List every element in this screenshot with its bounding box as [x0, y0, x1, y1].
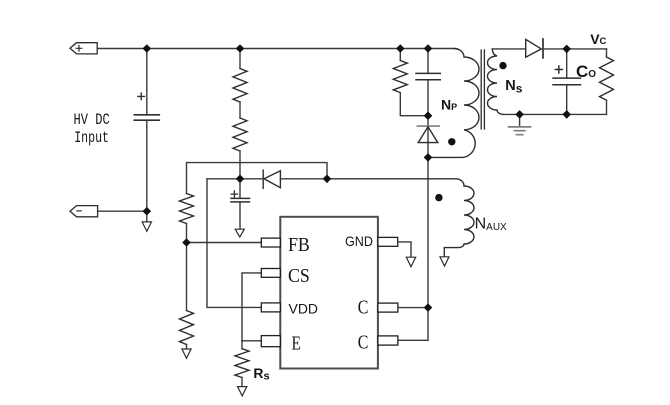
ground arrow below RS [238, 387, 247, 396]
svg-text:VC: VC [590, 31, 606, 47]
ground earth symbol (secondary) [509, 114, 531, 134]
polarity dot NP [448, 138, 455, 145]
wire between chain resistors [239, 102, 241, 118]
polarity dot NAUX [435, 194, 442, 201]
svg-text:E: E [292, 332, 301, 354]
ground arrow below vdd cap [235, 229, 244, 237]
svg-text:VDD: VDD [289, 300, 319, 316]
terminal + (HV DC input positive) [70, 43, 97, 54]
wire FB sense loop (left resistor top, horizontal y162, down to diode anode node) [187, 163, 328, 194]
wire VDD node left segment [207, 178, 240, 180]
wire E pin wire [242, 340, 261, 342]
node co-bottom [562, 110, 571, 119]
capacitor CO output [553, 49, 581, 115]
node FB [182, 238, 191, 247]
resistor FB lower divider [180, 311, 194, 345]
svg-text:CS: CS [288, 265, 310, 287]
node sec-gnd [515, 110, 524, 119]
wire drain vertical [427, 157, 429, 307]
node drain-C [424, 303, 433, 312]
node rail-cap [143, 44, 152, 53]
wire FB node vertical [186, 224, 188, 311]
transformer core [481, 50, 484, 129]
wire minus terminal to node [98, 210, 147, 212]
node diode-anode [323, 175, 332, 184]
wire CS pin wire [242, 273, 261, 341]
ground arrow below GND pin [406, 257, 415, 267]
wire GND pin to ground [398, 242, 411, 257]
label E [292, 332, 301, 354]
ground arrow below FB divider [182, 345, 191, 359]
label FB [288, 234, 310, 256]
node vc [562, 45, 571, 54]
label + polarity of vdd cap [231, 191, 237, 197]
wire secondary bottom rail [503, 113, 607, 115]
label HV DC Input [74, 111, 110, 147]
resistor FB upper divider [180, 194, 194, 224]
label VDD [289, 300, 319, 316]
label NAUX [475, 215, 507, 233]
label + polarity of input cap [138, 93, 145, 100]
node rail-snubR [396, 44, 405, 53]
pin C upper [378, 303, 398, 312]
pin C lower [378, 336, 398, 345]
wire C upper pin to drain node [398, 307, 428, 309]
svg-text:C: C [358, 332, 369, 354]
pin VDD [261, 303, 280, 312]
capacitor C-in (bulk input cap) [134, 115, 159, 120]
node vdd-cap [236, 175, 245, 184]
resistor RS (sense) [235, 349, 249, 378]
wire output node rail [543, 48, 607, 50]
winding NP primary [428, 49, 479, 158]
wire VDD node to VDD pin [207, 179, 261, 308]
wire diode wire segments [240, 178, 327, 180]
resistor divider chain upper (from rail) [233, 49, 247, 102]
node rail-chain [236, 44, 245, 53]
node snubber-bottom [424, 111, 433, 120]
wire chain bottom to VDD node [239, 151, 241, 179]
pin E [261, 336, 280, 347]
diode D-out (output rectifier) [526, 39, 543, 58]
label RS [253, 365, 269, 383]
pin GND [378, 237, 398, 246]
wire FB pin wire [187, 242, 262, 244]
winding NAUX auxiliary [327, 179, 474, 257]
wire RS leads [241, 341, 243, 387]
label C upper [358, 297, 369, 319]
IC body U1 [280, 217, 378, 369]
svg-text:NP: NP [441, 96, 457, 112]
svg-text:CO: CO [576, 62, 596, 81]
capacitor C-vdd (vdd storage) [231, 179, 250, 229]
node minus [143, 207, 152, 216]
label VC [590, 31, 606, 47]
svg-text:C: C [358, 297, 369, 319]
wire top rail [97, 48, 454, 50]
resistor snubber [393, 49, 428, 116]
label NP [441, 96, 457, 112]
wire input cap top lead [146, 49, 148, 115]
wire NS top to output diode [492, 48, 525, 50]
diode D-clamp (pointing up) [417, 116, 439, 158]
svg-text:GND: GND [345, 233, 373, 249]
wire input cap bottom lead [146, 120, 148, 211]
wire C lower pin up to drain node [398, 308, 428, 341]
label CO [576, 62, 596, 81]
resistor load [600, 49, 614, 115]
label C lower [358, 332, 369, 354]
svg-text:FB: FB [288, 234, 310, 256]
svg-text:Input: Input [74, 129, 109, 147]
resistor divider chain lower [233, 118, 247, 151]
pin FB [261, 238, 280, 247]
diode D-aux (aux rectifier, cathode left) [263, 170, 280, 188]
svg-text:Rs: Rs [253, 365, 269, 383]
ground arrow below minus node [142, 211, 151, 231]
ground arrow below NAUX [440, 257, 449, 266]
winding NS secondary [488, 49, 503, 115]
capacitor snubber [416, 49, 440, 116]
svg-text:HV DC: HV DC [74, 111, 110, 129]
label + polarity of CO [555, 66, 562, 73]
polarity dot NS [499, 62, 506, 69]
label NS [505, 78, 522, 95]
label CS [288, 265, 310, 287]
node primary-drain [424, 153, 433, 162]
svg-text:NAUX: NAUX [475, 215, 507, 233]
svg-text:Ns: Ns [505, 78, 522, 95]
terminal - (HV DC input negative) [70, 206, 98, 217]
node rail-snubC [424, 44, 433, 53]
pin CS [261, 269, 280, 278]
label GND [345, 233, 373, 249]
